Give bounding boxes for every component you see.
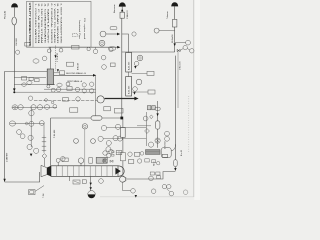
benzene dome stem: [121, 7, 123, 13]
row2 end bubble: [39, 121, 44, 126]
under-table tag box: [72, 45, 79, 49]
left of column bubble 2: [101, 55, 106, 60]
column B shell: [126, 77, 132, 97]
tag box above header left: [70, 108, 78, 112]
svg-text:Benzene: Benzene: [114, 4, 116, 13]
under-table bubble 2: [59, 47, 63, 52]
valve tag box 2: [29, 77, 33, 80]
toluene side stub: [175, 42, 186, 44]
product drop line: [122, 119, 124, 152]
drain arrowhead: [135, 195, 137, 198]
svg-text:SECOND WASH - B: SECOND WASH - B: [66, 72, 86, 75]
bottom bubble single left: [151, 189, 156, 194]
bottom link ticks: [167, 189, 170, 192]
decanter label T-04: [43, 193, 45, 198]
naoh pill tag: [155, 107, 160, 110]
svg-text:Plant Air: Plant Air: [4, 11, 7, 19]
inline oval instrument: [12, 17, 17, 25]
list item 2: [37, 3, 39, 44]
table frame: [27, 1, 92, 47]
boot drain arrowhead 1: [90, 183, 92, 186]
svg-text:7. VENT TO FLARE: 7. VENT TO FLARE: [53, 3, 56, 44]
interface bubble pair c: [98, 136, 103, 141]
row2 bubble: [29, 121, 34, 126]
heavy transfer pipe: [105, 98, 135, 100]
list item 7: [53, 3, 56, 44]
mid row bubble m4: [137, 159, 141, 163]
small tag box on box corner: [25, 42, 31, 46]
header end bubble 2: [190, 49, 194, 53]
mid row tag m3: [128, 160, 133, 164]
pump base rect: [162, 154, 167, 157]
naoh line label: [180, 62, 182, 70]
naoh inline filter capsule: [155, 121, 160, 129]
mixer bottom link: [43, 158, 45, 166]
nozzle bubble 1: [56, 158, 60, 162]
interface bubble pair d: [113, 136, 118, 141]
dosing arrowhead 1: [54, 55, 56, 58]
svg-text:1. COOLING WATER: 1. COOLING WATER: [34, 3, 37, 44]
toluene vent dome: [171, 2, 178, 6]
svg-text:I-04-602: I-04-602: [16, 37, 18, 46]
right cluster bubble 2: [106, 147, 111, 152]
nozzle pill tag: [62, 158, 68, 162]
list item 9: [59, 3, 62, 44]
legend CS option text: [83, 18, 86, 40]
cluster bubble c2: [20, 134, 25, 139]
bottom bubble far right: [183, 190, 188, 195]
interface bubble pair b: [115, 124, 120, 129]
right cluster bubble 4: [107, 154, 111, 158]
branch bubble below: [29, 111, 34, 116]
decanter inlet bell: [41, 165, 47, 176]
left of drum bubble: [148, 142, 153, 147]
list item 6: [50, 3, 53, 44]
left supply corner to wash: [5, 70, 47, 72]
benzene vent dome: [119, 2, 126, 6]
second wash arrowhead: [93, 74, 96, 77]
benzene pill tag 2: [109, 47, 116, 50]
bottom bubble pair: [162, 184, 171, 188]
svg-text:9. VENT TO ATMOSPHERE: 9. VENT TO ATMOSPHERE: [59, 3, 62, 44]
wash end bubble trio 1: [90, 82, 94, 86]
first wash label: [68, 80, 83, 83]
diamond on y100: [44, 98, 48, 101]
column A arrowhead: [134, 66, 136, 69]
wash line bubble b: [75, 87, 79, 91]
toluene bubble stub: [159, 30, 175, 32]
benzene check valve arrow: [117, 33, 120, 36]
naoh side bubble 1: [165, 131, 170, 136]
toluene side bubble: [186, 40, 191, 45]
svg-text:2 Na-0-03: 2 Na-0-03: [180, 62, 182, 70]
above row tag box r3: [116, 151, 122, 155]
drain bubble: [131, 189, 136, 194]
branch bubble: [132, 32, 136, 36]
svg-text:A-04-605: A-04-605: [128, 61, 131, 70]
inline strainer rect: [121, 128, 126, 138]
column A bubble hi: [137, 55, 143, 61]
feed line label: [6, 152, 8, 162]
agitator block: [96, 157, 107, 163]
static mixer ladder: [42, 135, 46, 153]
mid row label: [154, 161, 156, 166]
right cluster bubble 3: [118, 136, 123, 141]
toluene bubble left: [154, 28, 159, 33]
feed box to vessel: [60, 71, 65, 75]
boot drain arrowhead 2: [90, 187, 92, 190]
header valve bowtie: [177, 49, 180, 51]
plant air pipe down: [13, 25, 15, 89]
row2 diamond: [25, 122, 28, 125]
vessel bottom nozzle circle: [47, 85, 50, 88]
toluene inline pill: [174, 160, 178, 167]
dome stem: [13, 7, 15, 16]
under-table bubble 4: [93, 47, 98, 54]
above row bubble r4: [128, 152, 132, 156]
drain tag box 1: [73, 180, 80, 184]
svg-text:Toluene: Toluene: [167, 11, 169, 19]
decanter right head: [118, 166, 124, 177]
wash bubble d: [82, 89, 86, 93]
bottom feed run: [5, 172, 40, 182]
decanter shell: [51, 166, 118, 177]
bubble below tag: [16, 50, 20, 54]
svg-text:2. C. W. RETURN: 2. C. W. RETURN: [37, 3, 39, 44]
above row bubble r2: [109, 149, 113, 153]
vessel V-602 shell: [47, 69, 53, 85]
row bubble 4: [44, 105, 50, 110]
wash mid pipe y89: [44, 88, 96, 90]
mid row bubble m1: [103, 159, 107, 163]
column A side tag: [147, 71, 154, 75]
pump discharge arc: [171, 144, 175, 151]
naoh mix label: [77, 62, 79, 70]
naoh arrowhead: [156, 113, 158, 116]
benzene spec label: [126, 10, 129, 19]
interface line y127: [107, 126, 147, 128]
tag box on benzene pipe: [114, 108, 123, 113]
vessel bottom bubble 2: [51, 88, 55, 92]
benzene pill tag 1: [110, 26, 117, 29]
right cluster bubble 1: [106, 141, 111, 146]
svg-text:CS : option avail: CS : option avail: [83, 18, 86, 40]
left supply pipe vertical: [4, 71, 6, 181]
wash bubble c: [82, 83, 86, 87]
wash line tag box: [67, 87, 72, 91]
product drop line lower: [122, 161, 124, 176]
drain tag box 2: [82, 180, 86, 184]
naoh small tank pair: [147, 106, 155, 110]
plant air pipe arrowhead: [13, 88, 16, 91]
toluene naoh label: [172, 34, 174, 43]
center bubble 2: [91, 139, 96, 144]
above row tag box r5: [134, 152, 139, 156]
vessel top nozzle: [49, 47, 51, 69]
mixer side bubble: [61, 157, 66, 162]
paper background: [0, 0, 200, 200]
under drum tick rect 2: [152, 160, 156, 163]
wash end bubble trio 2: [90, 89, 94, 93]
column link line: [128, 72, 130, 77]
naoh side bubble 2: [165, 136, 170, 141]
naoh side label: [163, 141, 166, 149]
interface bubble pair a: [101, 125, 106, 130]
under-table bubble 3: [87, 47, 90, 50]
corner tag box: [29, 190, 35, 195]
product pump circle: [120, 176, 127, 182]
svg-text:N2 O: N2 O: [154, 161, 156, 166]
row bubble double oval: [12, 105, 18, 110]
column B bubble lo: [133, 87, 138, 92]
cluster bubble c4: [27, 144, 32, 149]
dosing label: [57, 52, 59, 62]
raffinate drum gray bar: [146, 150, 161, 155]
column B bubble hi: [136, 79, 142, 85]
reducer oval 2: [22, 83, 27, 86]
column A shell: [126, 53, 132, 73]
tag box above header mid: [104, 107, 111, 111]
naoh valve circle-x: [155, 138, 160, 143]
column B side tag: [148, 90, 155, 94]
valve tag box 3: [35, 79, 40, 82]
downcomer pipe: [50, 118, 52, 166]
bubble on y90 line: [28, 96, 32, 100]
center drop line: [84, 129, 86, 166]
column B side stub: [132, 91, 148, 93]
decanter left cap: [47, 166, 51, 177]
right drop line: [145, 112, 147, 146]
overhead pipe arrowhead: [117, 46, 120, 49]
svg-text:4 MW B/T: 4 MW B/T: [6, 152, 8, 162]
left of column bubble 1: [109, 48, 113, 52]
right diamond valve: [145, 129, 150, 134]
drain rect below: [157, 176, 161, 179]
list item 3: [40, 3, 43, 43]
wash end drop line: [95, 75, 97, 118]
valve tag box: [22, 77, 27, 80]
header junction arrow: [174, 43, 176, 46]
benzene pump bubble 2: [99, 40, 105, 46]
wash oval gauge: [57, 83, 62, 87]
heavy pipe arrowhead: [134, 97, 138, 101]
svg-text:3 TO B-03: 3 TO B-03: [57, 52, 59, 62]
svg-text:FIRST WASH - A: FIRST WASH - A: [68, 80, 83, 83]
svg-text:T-04-602: T-04-602: [54, 129, 56, 138]
list item 4: [43, 3, 46, 44]
pump drain line: [123, 182, 131, 190]
toluene label: [167, 11, 169, 19]
right margin strip: [194, 0, 200, 200]
toluene arrester box: [173, 19, 177, 27]
branch to column A: [122, 34, 129, 53]
svg-text:2N NaOH: 2N NaOH: [172, 34, 174, 43]
header pipe y90: [13, 91, 95, 93]
nozzle bubble 2: [78, 158, 83, 166]
header pipe y100: [34, 100, 97, 102]
cluster bubble c3: [28, 135, 33, 140]
product transfer pipe: [126, 172, 176, 179]
row small tag: [51, 101, 56, 108]
second wash label: [66, 72, 86, 75]
nozzle stub 1: [57, 162, 59, 165]
toluene pipe upper: [174, 27, 176, 52]
mid row valve m2: [110, 160, 113, 162]
tag box on y100: [63, 98, 69, 101]
svg-text:5. SAMPLE POINT: 5. SAMPLE POINT: [47, 3, 50, 44]
drain rect row 2: [156, 172, 160, 175]
pump suction stub: [121, 175, 123, 177]
header pipe y77: [14, 76, 46, 78]
left tag box: [111, 63, 116, 67]
toluene dome stem: [174, 6, 176, 19]
column A side stub: [132, 72, 147, 74]
sample bowl: [88, 191, 96, 199]
drain rect row 1: [150, 172, 154, 175]
parallel channel line: [177, 51, 179, 108]
list item 8: [56, 3, 59, 44]
bubble on y100: [76, 97, 80, 101]
toluene drop arrowhead: [174, 168, 176, 171]
svg-text:B-04-605: B-04-605: [129, 85, 131, 94]
svg-text:B to 03: B to 03: [180, 150, 183, 156]
row bubble 2: [18, 105, 23, 110]
benzene suction line: [106, 33, 117, 35]
legend insulated pipe text: [78, 20, 81, 40]
decanter bottom stub left: [69, 176, 71, 181]
center bubble 3: [74, 139, 79, 144]
svg-text:T-04: T-04: [43, 193, 45, 198]
instrument row pipe y106: [12, 106, 57, 108]
vent dome top-left: [11, 3, 18, 7]
dosing arrowhead 2: [57, 69, 59, 72]
header text UTILITY CONNECTIONS: [28, 3, 32, 46]
row bubble 3: [31, 105, 43, 110]
tiny tag stack: [111, 151, 114, 156]
second wash pipe: [54, 74, 94, 76]
header junction node: [120, 117, 123, 120]
cluster bubble c1: [17, 130, 22, 135]
oval gauge left of vessel: [33, 59, 39, 63]
recycle pump bubble: [97, 96, 104, 103]
cluster bubble c5: [34, 148, 39, 153]
naoh mix tag box: [67, 62, 74, 66]
svg-text:3. 150 PSIG STEAM: 3. 150 PSIG STEAM: [40, 3, 43, 43]
svg-text:8. CLEAR SEWER: 8. CLEAR SEWER: [56, 3, 59, 44]
header end bubble 1: [183, 45, 187, 49]
branch drop line x31: [30, 106, 32, 147]
benzene vent arrow: [121, 9, 123, 12]
corner tag link: [35, 186, 44, 192]
toluene main drop pipe: [174, 56, 176, 169]
list item 5: [47, 3, 50, 44]
row2 leading bubble: [9, 121, 15, 126]
left of column bubble 3: [102, 65, 107, 70]
header end link: [187, 49, 190, 50]
bubble right of oval: [42, 56, 47, 61]
column A bubble lo: [134, 61, 139, 66]
inline transfer bubble: [149, 176, 154, 181]
svg-text:2 N4 A CO: 2 N4 A CO: [126, 10, 129, 19]
cluster arrowhead: [30, 154, 33, 157]
feed box stub: [54, 72, 60, 74]
header divider: [32, 1, 34, 47]
pipe label I-04-602: [16, 37, 18, 46]
short link y125.8: [137, 125, 151, 127]
header end stub: [180, 49, 183, 51]
benzene label: [114, 4, 116, 13]
benzene pump bubble 1: [100, 31, 106, 37]
column B arrowhead: [133, 92, 135, 95]
reducer oval: [27, 81, 32, 85]
mixer diamond valve: [42, 154, 47, 159]
overhead pipe y47: [48, 46, 117, 48]
mixer top link: [43, 124, 45, 135]
toluene drop label: [180, 150, 183, 156]
svg-text:6. CHEMICAL SEWER: 6. CHEMICAL SEWER: [50, 3, 53, 44]
inline capsule on header: [91, 116, 102, 120]
instrument row pipe y123.5: [10, 123, 44, 125]
wash line bubble a: [57, 87, 61, 91]
svg-text:UTILITY CONNECTIONS: UTILITY CONNECTIONS: [28, 3, 32, 46]
cross header pipe: [122, 51, 175, 53]
svg-text:4. CONDENSATE: 4. CONDENSATE: [43, 3, 46, 44]
list item 1: [34, 3, 37, 44]
boot drain line: [90, 176, 92, 190]
legend insulated pipe symbol: [72, 34, 77, 37]
dashed dosing line: [55, 46, 57, 71]
column A label: [128, 61, 131, 70]
raffinate pump casing: [161, 148, 171, 158]
left drain bubble: [99, 179, 104, 184]
bottom bubble below pair: [169, 191, 174, 196]
naoh feed bubble: [143, 116, 148, 121]
svg-text:B NaOH: B NaOH: [77, 62, 79, 70]
under drum bubble: [157, 162, 160, 165]
plant air label: [4, 11, 7, 19]
svg-text:Insulated Pipe: Insulated Pipe: [78, 20, 81, 40]
drawing border right: [193, 0, 195, 197]
downcomer label T-04-602: [54, 129, 56, 138]
wash bubble 84: [66, 82, 70, 86]
drawing border bottom right: [100, 196, 194, 198]
naoh small diamond: [150, 115, 153, 119]
drum left mark: [140, 152, 144, 156]
main header pipe y118: [51, 117, 122, 119]
above row bubble r1: [103, 151, 107, 155]
center bubble double: [82, 124, 87, 129]
under drum tick rect 1: [145, 159, 149, 162]
decanter right cone: [115, 168, 120, 175]
nozzle cylinder: [89, 158, 93, 164]
interface line y138.5: [103, 138, 146, 140]
header pipe y84.5: [14, 84, 55, 86]
dotted boundary line: [188, 96, 190, 152]
bottom feed arrowhead: [3, 179, 5, 182]
column B label: [129, 85, 131, 94]
naoh line: [157, 101, 159, 148]
right cluster tall tag: [120, 153, 125, 161]
under-table bubble 1: [47, 47, 51, 52]
benzene arrester box: [120, 12, 124, 18]
benzene main pipe: [121, 18, 123, 118]
